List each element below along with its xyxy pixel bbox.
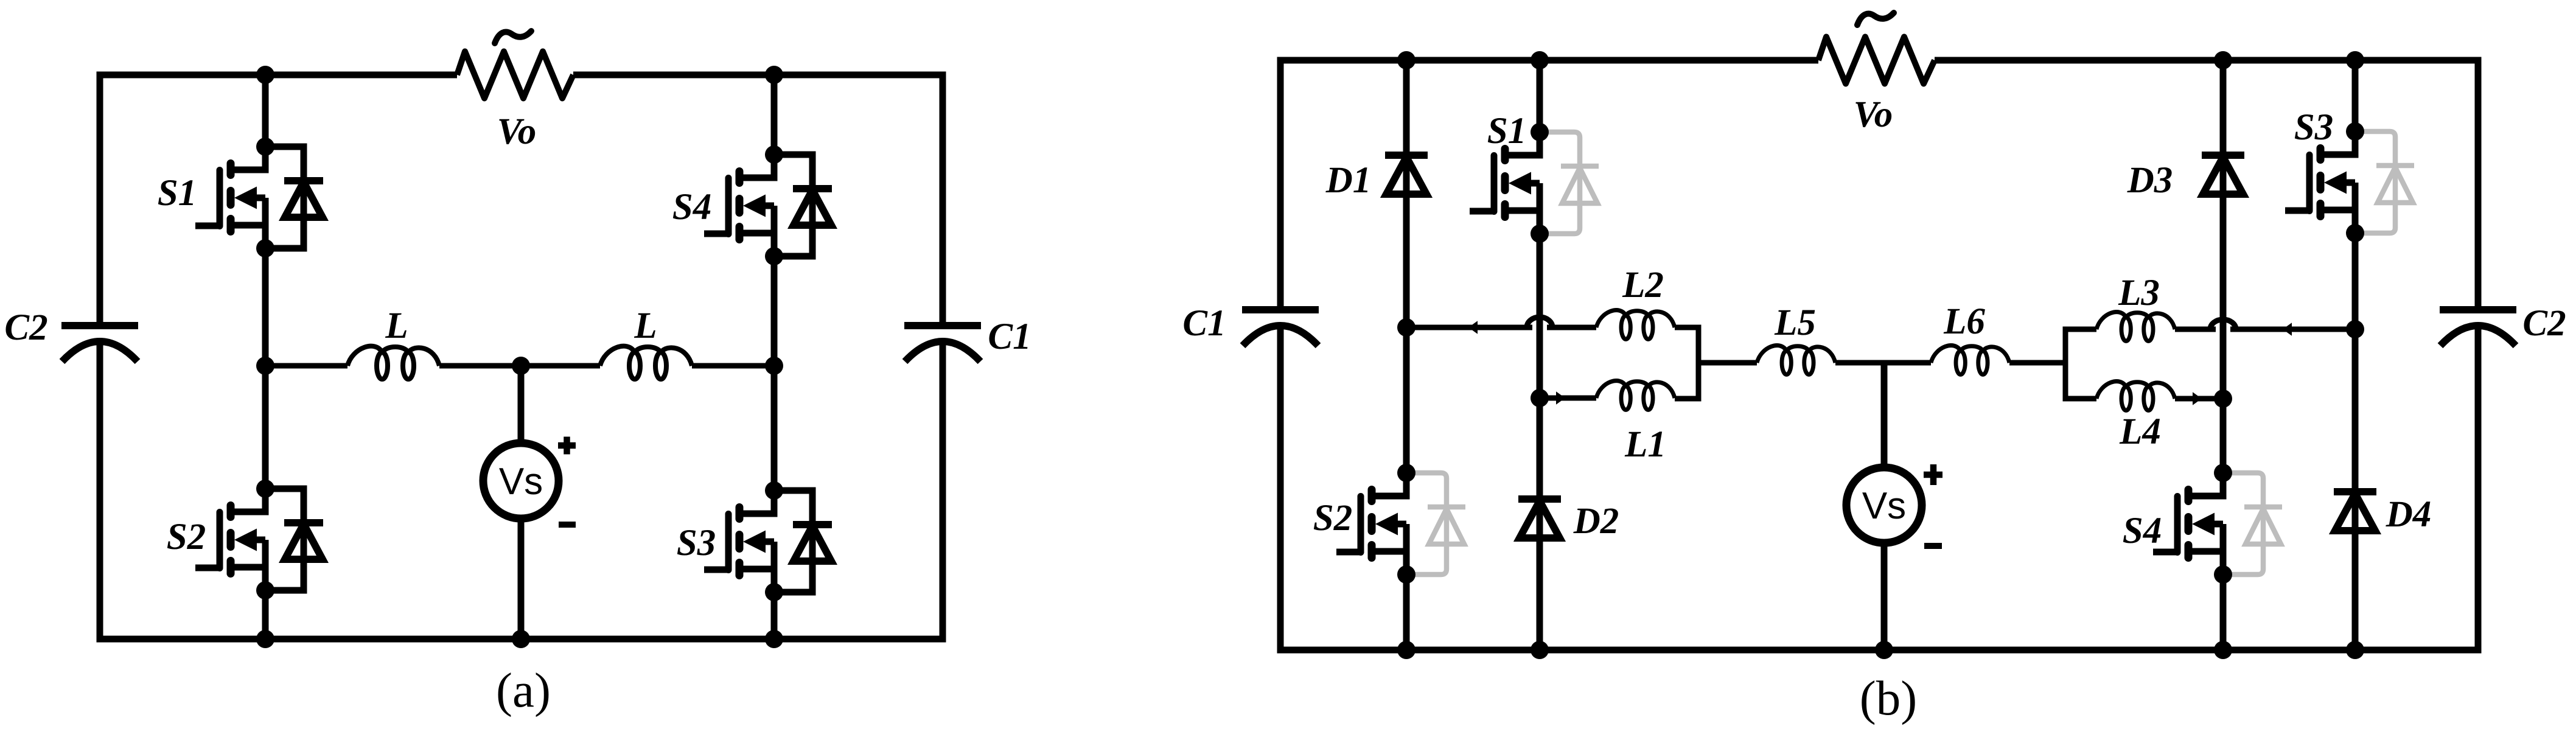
svg-text:S3: S3 (2294, 107, 2333, 148)
inductor L3 (2096, 312, 2175, 341)
wire branch D3-S4 (b) (2220, 60, 2227, 650)
svg-text:S4: S4 (672, 187, 711, 228)
wire branch S3-D4 (b) (2352, 60, 2359, 650)
inductor L6 (1931, 346, 2009, 375)
node S3 link (b) (2346, 320, 2364, 338)
wire hop right (b) (2210, 320, 2236, 329)
svg-text:C2: C2 (4, 307, 47, 348)
wire top-right link (b) (2175, 327, 2355, 332)
inductor L right (a) (600, 346, 692, 379)
svg-text:S3: S3 (677, 523, 716, 564)
wire bottom rail (b) (1280, 326, 2478, 650)
svg-text:S1: S1 (158, 173, 197, 214)
transistor S2 (b) (1336, 464, 1465, 584)
svg-text:Vo: Vo (497, 111, 536, 152)
wire bottom-left link (b) (1540, 396, 1596, 401)
wire hop left (b) (1527, 317, 1552, 327)
svg-text:C1: C1 (988, 316, 1031, 357)
transistor S3 (b) (2285, 122, 2414, 242)
svg-text:S4: S4 (2123, 511, 2162, 551)
inductor L5 (1757, 346, 1835, 375)
svg-text:S1: S1 (1487, 111, 1526, 152)
transistor S1 (a) (195, 138, 323, 257)
node L4 tap (b) (2214, 389, 2232, 408)
node bottom rail S2 (b) (1397, 641, 1415, 659)
node top rail S1 (b) (1531, 51, 1549, 69)
transistor S1 (b) (1470, 123, 1599, 243)
arrow top-right (b) (2283, 323, 2292, 335)
transistor S2 (a) (195, 480, 323, 599)
diode D3 (2202, 155, 2244, 194)
svg-text:Vs: Vs (1862, 485, 1906, 527)
svg-text:Vo: Vo (1854, 94, 1893, 135)
arrow bottom-right (b) (2193, 392, 2202, 405)
svg-text:L5: L5 (1774, 302, 1816, 343)
capacitor C2 (b) (2440, 310, 2516, 346)
svg-text:(a): (a) (496, 663, 551, 718)
node bottom rail S4 (b) (2214, 641, 2232, 659)
diode D1 (1385, 155, 1428, 194)
svg-text:L: L (634, 306, 657, 346)
wire Vs branch (a) (518, 366, 525, 639)
wire right parallel bar (b) (2065, 329, 2096, 399)
source Vs (b) (1846, 464, 1942, 546)
resistor Vo (a) (457, 31, 573, 99)
inductor L left (a) (347, 346, 439, 379)
diode D2 (1518, 499, 1561, 538)
node bottom rail D4 (b) (2346, 641, 2364, 659)
node top-right (a) (765, 66, 783, 84)
wire right bridge leg (a) (771, 75, 778, 639)
svg-text:S2: S2 (1313, 498, 1352, 539)
wire middle rail (a) (265, 363, 774, 369)
svg-text:D1: D1 (1325, 160, 1372, 201)
capacitor C1 (a) (904, 326, 981, 362)
node mid-right (a) (765, 357, 783, 375)
transistor S4 (a) (704, 145, 832, 265)
arrow bottom-left (b) (1556, 391, 1565, 404)
node D1 link (b) (1397, 318, 1415, 337)
transistor S4 (b) (2153, 464, 2282, 584)
wire branch S1-D2 (b) (1537, 60, 1543, 650)
svg-text:D3: D3 (2127, 160, 2173, 201)
inductor L2 (1596, 310, 1675, 340)
node bottom-center (a) (512, 630, 530, 648)
node bottom-left (a) (256, 630, 274, 648)
arrow top-left (b) (1468, 321, 1478, 334)
wire middle link (b) (1698, 360, 2065, 366)
wire left parallel bar (b) (1675, 327, 1698, 399)
wire bottom rail (a) (100, 341, 943, 639)
svg-text:D2: D2 (1573, 501, 1619, 542)
svg-text:L4: L4 (2119, 411, 2161, 452)
node top rail D1 (b) (1397, 51, 1415, 69)
wire bottom-right link (b) (2175, 396, 2223, 402)
node bottom rail D2 (b) (1531, 641, 1549, 659)
svg-text:S2: S2 (167, 517, 206, 557)
source Vs (a) (483, 437, 576, 525)
svg-text:C2: C2 (2522, 303, 2566, 344)
inductor L1 (1596, 381, 1675, 410)
node top-left (a) (256, 66, 274, 84)
svg-text:Vs: Vs (499, 461, 543, 503)
node top rail S3 (b) (2346, 51, 2364, 69)
svg-text:L6: L6 (1943, 301, 1985, 342)
wire left bridge leg (a) (262, 75, 269, 639)
node bottom-right (a) (765, 630, 783, 648)
resistor Vo (b) (1818, 13, 1935, 84)
svg-text:L: L (385, 306, 408, 346)
svg-text:D4: D4 (2386, 494, 2432, 535)
node mid-center (a) (512, 357, 530, 375)
svg-text:L1: L1 (1624, 424, 1666, 465)
capacitor C2 (61, 326, 138, 362)
wire top rail (a) (100, 75, 943, 323)
svg-text:(b): (b) (1860, 671, 1917, 725)
wire top-left link (b) (1406, 325, 1596, 330)
transistor S3 (a) (704, 481, 832, 601)
wire top rail (b) (1280, 60, 2478, 307)
svg-text:C1: C1 (1182, 303, 1226, 344)
node L1 tap (b) (1531, 389, 1549, 407)
svg-text:L3: L3 (2118, 273, 2160, 313)
node bottom rail Vs (b) (1875, 641, 1893, 659)
wire branch D1-S2 (b) (1403, 60, 1410, 650)
svg-text:L2: L2 (1622, 265, 1664, 306)
wire Vs branch (b) (1881, 363, 1888, 650)
node mid-left (a) (256, 357, 274, 375)
capacitor C1 (b) (1242, 310, 1319, 346)
inductor L4 (2096, 382, 2175, 411)
node top rail D3 (b) (2214, 51, 2232, 69)
diode D4 (2334, 492, 2376, 531)
